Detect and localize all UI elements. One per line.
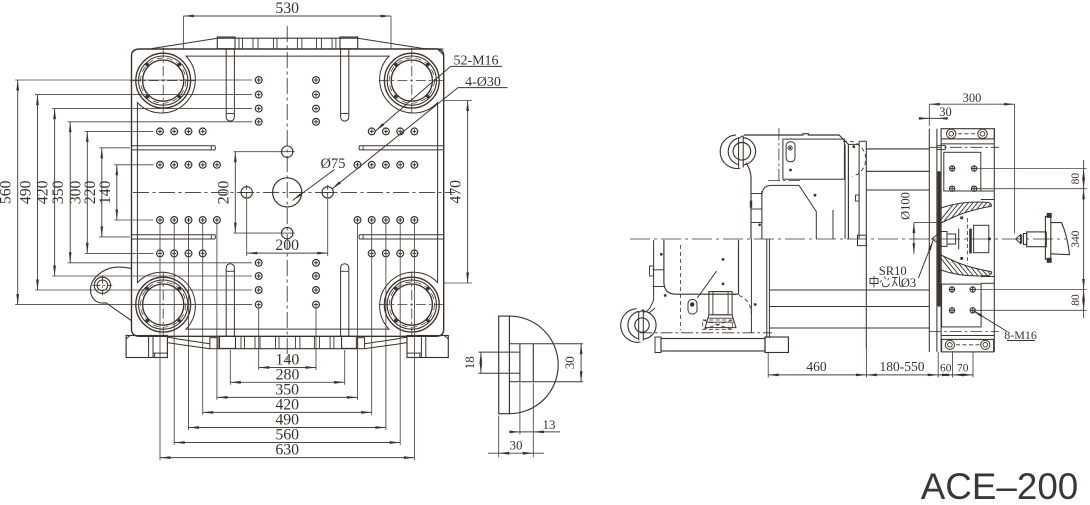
lower dashed vertical: [680, 245, 682, 330]
svg-text:30: 30: [939, 105, 952, 119]
locating ring section bar: [499, 316, 510, 414]
dimension 350 bottom: [216, 224, 218, 400]
svg-text:180-550: 180-550: [880, 359, 925, 374]
dimension 280 bottom: [229, 350, 231, 385]
lower dashdot axis: [640, 332, 772, 334]
tie bar hole bottom-right: [384, 277, 439, 332]
upper panel dashed arc: [843, 141, 866, 176]
dimension 470 right: [444, 100, 472, 102]
side lug with hole: [90, 267, 131, 321]
svg-text:Ø3: Ø3: [901, 276, 916, 290]
lower tie bar: [769, 289, 929, 291]
moving platen lower eye: [621, 309, 641, 343]
svg-text:350: 350: [50, 180, 67, 204]
svg-text:460: 460: [806, 359, 827, 374]
lower body diagonal: [697, 271, 716, 298]
svg-text:Ø100: Ø100: [899, 192, 913, 220]
svg-text:80: 80: [1070, 294, 1082, 306]
lower bracket dots: [660, 253, 663, 256]
sprue bushing center: [932, 233, 939, 243]
lower dashed arc: [732, 294, 751, 314]
injection nozzle tip: [1016, 235, 1021, 244]
carriage front lines: [858, 141, 860, 239]
section step lines: [519, 344, 521, 382]
vertical stud bottom-left: [226, 264, 234, 337]
dimension 560 left: [15, 79, 252, 81]
vertical stud bottom-right: [341, 264, 349, 337]
upper bracket verticals: [832, 210, 834, 239]
bottom bracket strip: [218, 348, 356, 350]
section tongue lines: [479, 351, 520, 353]
plate inner contour around tie-bar bosses: [137, 56, 437, 329]
dimension 530 top: [182, 16, 184, 49]
svg-text:530: 530: [275, 0, 299, 17]
tie bar hole bottom-left: [136, 277, 191, 332]
bottom edge slant right: [365, 337, 407, 344]
svg-text:630: 630: [275, 442, 299, 459]
dimension 560 bottom: [173, 224, 175, 446]
moving platen upper body: [744, 134, 848, 239]
M16 hole row y253 left: [157, 250, 164, 257]
svg-text:ACE–200: ACE–200: [921, 466, 1079, 505]
svg-text:13: 13: [543, 417, 556, 432]
M16 hole row y220 left: [157, 217, 164, 224]
horizontal stud left upper: [132, 146, 216, 150]
injection flange: [1045, 216, 1050, 259]
moving platen upper eye: [720, 135, 740, 169]
fixed platen upper mold rect: [944, 152, 981, 191]
lower bracket notch: [650, 266, 654, 276]
M16 hole row y131 right: [411, 128, 418, 135]
svg-text:18: 18: [462, 356, 477, 369]
dimension 30 section bottom: [498, 416, 500, 458]
platen plate outline: [132, 49, 444, 336]
svg-text:200: 200: [275, 237, 299, 254]
svg-text:Ø75: Ø75: [321, 156, 346, 172]
fixed platen support plate: [928, 129, 930, 352]
fixed platen top clamp: [941, 129, 994, 139]
machine base plate: [661, 339, 765, 352]
top bracket strip: [217, 37, 357, 39]
upper body inner panel: [783, 139, 845, 179]
dimension 350 left: [68, 121, 252, 123]
M16 hole row y253 right: [411, 250, 418, 257]
dimension 13 section: [519, 383, 521, 434]
moving platen lower body: [664, 240, 739, 294]
svg-text:300: 300: [963, 91, 982, 105]
D30 hole right: [322, 187, 333, 198]
upper panel slot: [786, 142, 795, 162]
dimension 80 340 80 right: [977, 168, 1087, 170]
left foot: [126, 336, 167, 358]
dimension 30 right view: [921, 117, 948, 119]
dimension 490 bottom: [188, 224, 190, 431]
upper body fillet: [762, 185, 816, 211]
locating ring half-disc: [509, 316, 558, 414]
svg-text:340: 340: [1070, 230, 1082, 248]
lower support trapezoid: [705, 315, 736, 328]
M16 hole column x258: [255, 77, 262, 84]
svg-text:490: 490: [18, 180, 35, 204]
center vertical dash-dot axis: [286, 26, 288, 362]
svg-text:200: 200: [215, 180, 232, 204]
horizontal stud left lower: [132, 235, 216, 239]
M16 hole column x316: [313, 77, 320, 84]
bottom strip slot ticks: [240, 336, 242, 348]
tie bar hole top-right: [384, 53, 439, 108]
fixed platen bottom clamp: [942, 339, 994, 352]
fixed platen lower mold rect: [942, 284, 982, 327]
lower bracket verticals: [750, 239, 752, 333]
dimension 30 section right: [580, 344, 582, 382]
upper bracket dots: [814, 194, 817, 197]
top strip slot ticks: [238, 38, 240, 49]
D30 hole top: [282, 146, 293, 157]
lower support block: [709, 292, 732, 315]
dimension 460 180-550 60 70: [767, 353, 769, 378]
vertical stud top-right: [341, 49, 349, 121]
dimension 490 left: [35, 94, 252, 96]
right foot: [407, 336, 448, 358]
machine axis dash-dot: [630, 238, 1066, 240]
D30 hole left: [241, 187, 252, 198]
svg-text:140: 140: [97, 180, 114, 204]
dimension 420 bottom: [202, 224, 204, 415]
tie bar hole top-left: [136, 53, 191, 108]
M16 hole row y131 left: [157, 128, 164, 135]
dimension 630 bottom: [159, 224, 161, 461]
horizontal stud right upper: [359, 146, 444, 150]
fixed platen body: [940, 139, 942, 352]
top chamfer diagonals: [152, 38, 218, 48]
center hole D75: [273, 178, 302, 207]
svg-text:30: 30: [510, 438, 523, 453]
dimension 140 left: [114, 164, 153, 166]
dimension 300 left: [85, 130, 154, 132]
dimension 420 left: [52, 108, 252, 110]
bottom edge slant left: [167, 337, 209, 344]
dimension 140 bottom: [258, 308, 260, 370]
upper bracket dashdot axis: [778, 128, 780, 184]
svg-text:80: 80: [1070, 173, 1082, 185]
upper body diagonal: [815, 212, 817, 240]
vertical stud top-left: [226, 49, 234, 121]
D30 hole bottom: [282, 227, 293, 238]
dimension 200 horizontal center: [246, 199, 248, 256]
svg-text:470: 470: [448, 180, 465, 204]
dimension 300 right view: [928, 104, 930, 126]
M16 hole row y220 right: [411, 217, 418, 224]
injection nozzle body: [1027, 232, 1047, 247]
svg-text:560: 560: [0, 180, 15, 204]
center horizontal dash-dot axis: [133, 191, 455, 193]
M16 hole row y165 left: [157, 161, 164, 168]
lower bolt slot: [688, 300, 697, 315]
dimension 18 section: [480, 352, 482, 373]
svg-text:30: 30: [562, 356, 577, 369]
barrel head: [1051, 223, 1070, 255]
dimension 200 vertical center: [234, 151, 282, 153]
lower dashed cross: [703, 320, 733, 329]
svg-text:70: 70: [957, 363, 969, 375]
dimension 220 left: [99, 147, 130, 149]
plate corner notch: [438, 49, 444, 55]
mold cavity rect: [974, 225, 989, 252]
svg-text:60: 60: [940, 363, 952, 375]
upper tie bar: [866, 148, 929, 150]
horizontal stud right lower: [359, 235, 444, 239]
M16 hole row y165 right: [411, 161, 418, 168]
svg-text:420: 420: [35, 180, 52, 204]
